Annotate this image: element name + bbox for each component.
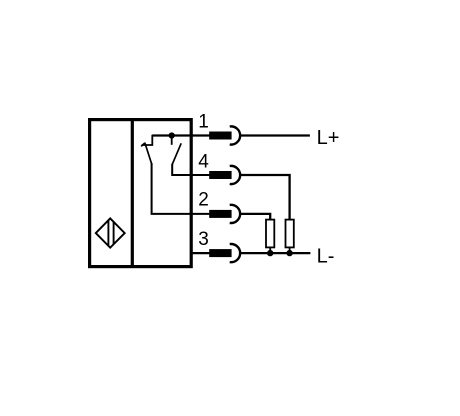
junction node (dot) R1 to L- line (267, 250, 273, 256)
resistor R2 bottom lead (289, 247, 291, 253)
wire: switch common to pin 1 (152, 134, 209, 136)
NC contact arm with end tick (141, 143, 151, 164)
svg-text:3: 3 (198, 229, 209, 250)
junction node (dot) R2 to L- line (286, 250, 292, 256)
svg-text:L+: L+ (317, 127, 340, 149)
wire: NC arm down to pin 2 level (152, 163, 210, 214)
svg-text:4: 4 (198, 151, 209, 172)
pin 1 socket arc (230, 126, 240, 144)
junction node (dot) on common wire (169, 132, 175, 138)
svg-text:L-: L- (317, 246, 335, 268)
pin 2 socket arc (230, 205, 240, 223)
inductive sensor symbol (diamond) (96, 218, 125, 247)
pin 2 contact (black pin) (209, 210, 231, 218)
wire: pin 2 to resistor R1 top (241, 214, 271, 219)
pin 3 socket arc (230, 244, 240, 262)
NO fixed contact stub (171, 138, 173, 145)
pin 1 contact (black pin) (209, 132, 231, 140)
wire: pin 4 to resistor R2 top (241, 175, 290, 219)
wire: pin 3 to L- (241, 252, 311, 254)
NC fixed contact (stepped terminal) (142, 135, 153, 145)
sensor compartment divider (131, 119, 134, 268)
pin 4 contact (black pin) (209, 171, 231, 179)
svg-text:2: 2 (198, 190, 209, 211)
resistor R1 (266, 220, 274, 248)
resistor R1 bottom lead (269, 247, 271, 253)
pin 3 contact (black pin) (209, 249, 231, 257)
wire: pin 3 stub from box edge (192, 252, 210, 254)
wire: NO arm down to pin 4 level (172, 164, 209, 175)
resistor R2 (286, 220, 294, 248)
wire: pin 1 to L+ (241, 134, 310, 136)
sensor body outline (90, 120, 192, 267)
pin 4 socket arc (230, 166, 240, 184)
svg-text:1: 1 (198, 112, 209, 133)
NO contact arm (open) (172, 143, 181, 164)
